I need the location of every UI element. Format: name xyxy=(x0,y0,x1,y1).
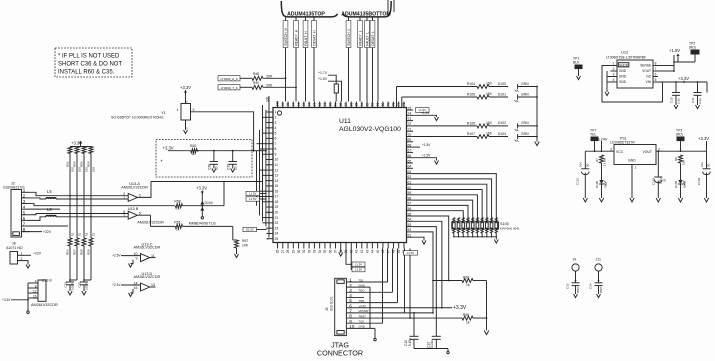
svg-text:78: 78 xyxy=(392,103,396,107)
svg-text:S100: S100 xyxy=(500,222,509,226)
svg-text:36: 36 xyxy=(328,249,332,253)
svg-text:VOUT: VOUT xyxy=(642,69,651,73)
svg-text:4: 4 xyxy=(613,78,615,82)
svg-text:A1071 ND: A1071 ND xyxy=(6,246,23,250)
svg-text:20: 20 xyxy=(275,211,279,215)
svg-text:58: 58 xyxy=(408,196,412,200)
svg-text:DESAT_H: DESAT_H xyxy=(313,30,317,46)
svg-text:+2.5V: +2.5V xyxy=(112,283,121,287)
svg-text:+3.3V: +3.3V xyxy=(180,85,191,90)
svg-text:51: 51 xyxy=(71,232,75,236)
svg-text:12: 12 xyxy=(275,168,279,172)
svg-text:6: 6 xyxy=(655,73,657,77)
svg-text:LT3999_H_9: LT3999_H_9 xyxy=(220,77,237,81)
svg-text:D1.5V: D1.5V xyxy=(246,228,254,232)
svg-text:51: 51 xyxy=(408,234,412,238)
svg-text:27: 27 xyxy=(281,249,285,253)
svg-text:96: 96 xyxy=(297,103,301,107)
svg-text:18: 18 xyxy=(275,200,279,204)
svg-text:87: 87 xyxy=(344,103,348,107)
svg-text:DESAT_L: DESAT_L xyxy=(371,31,375,46)
svg-text:34: 34 xyxy=(318,249,322,253)
svg-text:85: 85 xyxy=(355,103,359,107)
svg-text:150: 150 xyxy=(486,132,492,136)
svg-text:82: 82 xyxy=(371,103,375,107)
svg-text:37: 37 xyxy=(334,249,338,253)
svg-text:0.01u: 0.01u xyxy=(430,340,434,348)
svg-text:69: 69 xyxy=(408,138,412,142)
svg-text:9: 9 xyxy=(275,152,277,156)
svg-text:YEL: YEL xyxy=(604,182,608,188)
svg-text:3: 3 xyxy=(610,147,612,151)
svg-text:88: 88 xyxy=(339,103,343,107)
svg-text:J11: J11 xyxy=(596,258,602,262)
svg-text:CONNECTOR: CONNECTOR xyxy=(317,349,363,358)
svg-text:54: 54 xyxy=(408,218,412,222)
svg-text:84: 84 xyxy=(360,103,364,107)
svg-text:C31: C31 xyxy=(691,97,695,103)
svg-text:62: 62 xyxy=(408,175,412,179)
svg-text:2: 2 xyxy=(613,67,615,71)
svg-text:GND: GND xyxy=(359,283,365,287)
svg-text:+22V: +22V xyxy=(43,230,52,234)
svg-text:U11: U11 xyxy=(339,118,351,125)
svg-text:AM26LV32CDR: AM26LV32CDR xyxy=(121,186,148,190)
svg-text:86: 86 xyxy=(349,103,353,107)
svg-text:100P: 100P xyxy=(70,283,74,290)
svg-text:R106: R106 xyxy=(467,121,475,125)
svg-text:D102: D102 xyxy=(498,121,506,125)
svg-text:15: 15 xyxy=(134,286,138,290)
svg-text:U12: U12 xyxy=(621,50,629,55)
svg-text:60: 60 xyxy=(408,186,412,190)
svg-text:R53: R53 xyxy=(65,249,69,255)
svg-text:GND: GND xyxy=(628,159,636,163)
svg-text:93: 93 xyxy=(313,103,317,107)
svg-text:FAULT_L: FAULT_L xyxy=(366,32,370,46)
svg-text:LT3060ITS8-1.5#TRMPBF: LT3060ITS8-1.5#TRMPBF xyxy=(606,55,646,59)
svg-text:J9: J9 xyxy=(573,258,577,262)
svg-text:97: 97 xyxy=(292,103,296,107)
svg-text:INSTALL R60 & C35.: INSTALL R60 & C35. xyxy=(58,70,115,76)
svg-text:150: 150 xyxy=(486,92,492,96)
svg-text:C30: C30 xyxy=(670,97,674,103)
svg-text:+1.5V: +1.5V xyxy=(318,77,328,81)
svg-text:R52: R52 xyxy=(65,161,69,167)
svg-text:R48: R48 xyxy=(253,72,259,76)
svg-text:+1.5V: +1.5V xyxy=(422,143,431,147)
svg-text:R54: R54 xyxy=(72,161,76,167)
svg-text:L1.5V: L1.5V xyxy=(355,268,362,272)
svg-text:READY_L: READY_L xyxy=(359,30,363,46)
svg-text:KAV-0H0 0041: KAV-0H0 0041 xyxy=(500,226,520,230)
svg-text:21: 21 xyxy=(275,216,279,220)
svg-text:64: 64 xyxy=(408,165,412,169)
svg-text:FAULT_H: FAULT_H xyxy=(304,31,308,46)
svg-text:89: 89 xyxy=(334,103,338,107)
svg-text:50: 50 xyxy=(707,163,711,167)
svg-text:71: 71 xyxy=(408,128,412,132)
svg-text:L1.5V: L1.5V xyxy=(249,197,256,201)
svg-text:44: 44 xyxy=(371,249,375,253)
svg-text:68: 68 xyxy=(408,143,412,147)
svg-text:10u: 10u xyxy=(700,162,704,167)
svg-text:DNP: DNP xyxy=(599,287,603,293)
svg-text:U13 B: U13 B xyxy=(128,207,139,211)
svg-text:51: 51 xyxy=(92,232,96,236)
svg-text:70: 70 xyxy=(408,133,412,137)
svg-text:R107: R107 xyxy=(467,132,475,136)
svg-text:3: 3 xyxy=(613,73,615,77)
svg-text:VCC: VCC xyxy=(616,150,624,154)
svg-text:NC: NC xyxy=(646,75,651,79)
svg-text:SWITCH_H: SWITCH_H xyxy=(284,28,288,46)
svg-text:80: 80 xyxy=(381,103,385,107)
svg-text:32: 32 xyxy=(307,249,311,253)
svg-text:TDI: TDI xyxy=(359,278,364,282)
svg-text:+1.5V: +1.5V xyxy=(422,154,431,158)
svg-text:4: 4 xyxy=(35,279,37,283)
svg-text:73: 73 xyxy=(408,117,412,121)
svg-text:11: 11 xyxy=(275,163,279,167)
svg-text:100P: 100P xyxy=(84,283,88,290)
svg-text:50: 50 xyxy=(585,163,589,167)
svg-text:L6: L6 xyxy=(47,207,52,212)
svg-text:92: 92 xyxy=(318,103,322,107)
svg-text:R8: R8 xyxy=(674,157,678,161)
svg-text:LD1086DT33TR: LD1086DT33TR xyxy=(610,141,635,145)
svg-text:SWITCH_L: SWITCH_L xyxy=(347,29,351,46)
svg-text:75: 75 xyxy=(408,106,412,110)
svg-text:* IF PLL IS NOT USED: * IF PLL IS NOT USED xyxy=(58,54,120,60)
svg-text:C34: C34 xyxy=(589,283,593,289)
svg-text:1k: 1k xyxy=(466,283,470,287)
svg-text:+1.5V: +1.5V xyxy=(669,48,680,53)
svg-text:AM26LV32CDR: AM26LV32CDR xyxy=(134,275,161,279)
svg-text:2.2u: 2.2u xyxy=(698,98,702,104)
svg-text:1: 1 xyxy=(635,166,637,170)
svg-text:1: 1 xyxy=(613,62,615,66)
svg-text:R49: R49 xyxy=(253,81,259,85)
svg-text:1k: 1k xyxy=(176,228,180,232)
svg-text:L24V: L24V xyxy=(599,137,608,141)
svg-text:R7: R7 xyxy=(595,158,599,162)
svg-text:+3.3V: +3.3V xyxy=(453,305,467,311)
svg-text:R57: R57 xyxy=(72,249,76,255)
svg-text:25: 25 xyxy=(275,237,279,241)
svg-text:+1.5V: +1.5V xyxy=(421,111,430,115)
svg-text:MMBD4008 T1G: MMBD4008 T1G xyxy=(189,221,216,225)
svg-text:AGL030V2-VQG100: AGL030V2-VQG100 xyxy=(339,126,401,133)
svg-text:GRN: GRN xyxy=(521,121,529,125)
svg-text:D104: D104 xyxy=(205,201,213,205)
svg-text:51: 51 xyxy=(78,232,82,236)
svg-text:56: 56 xyxy=(408,207,412,211)
svg-text:14.0K: 14.0K xyxy=(603,158,607,166)
svg-text:100: 100 xyxy=(276,101,280,107)
svg-text:67: 67 xyxy=(408,149,412,153)
svg-text:3: 3 xyxy=(275,121,277,125)
svg-text:*: * xyxy=(161,160,163,166)
svg-text:1k: 1k xyxy=(466,320,470,324)
svg-text:22: 22 xyxy=(275,221,279,225)
svg-text:15: 15 xyxy=(275,184,279,188)
svg-text:+3.3V: +3.3V xyxy=(196,186,207,191)
svg-text:31: 31 xyxy=(302,249,306,253)
svg-text:GRN: GRN xyxy=(521,132,529,136)
svg-text:9: 9 xyxy=(136,256,138,260)
svg-text:24: 24 xyxy=(275,232,279,236)
svg-text:41: 41 xyxy=(355,249,359,253)
svg-text:25: 25 xyxy=(662,178,666,182)
svg-text:2.2u: 2.2u xyxy=(677,98,681,104)
svg-text:99: 99 xyxy=(281,103,285,107)
svg-text:8: 8 xyxy=(35,284,37,288)
svg-text:+3.3V: +3.3V xyxy=(359,304,367,308)
svg-text:90: 90 xyxy=(328,103,332,107)
svg-text:150: 150 xyxy=(486,121,492,125)
svg-text:L5: L5 xyxy=(47,189,52,194)
svg-text:L1.5V: L1.5V xyxy=(355,263,362,267)
svg-text:(RD): (RD) xyxy=(676,133,683,137)
svg-text:VIN: VIN xyxy=(646,80,652,84)
svg-text:61: 61 xyxy=(408,181,412,185)
svg-text:R58: R58 xyxy=(79,249,83,255)
svg-text:D100: D100 xyxy=(498,82,506,86)
svg-text:150: 150 xyxy=(486,82,492,86)
svg-text:7: 7 xyxy=(275,142,277,146)
svg-text:6: 6 xyxy=(275,137,277,141)
svg-text:7: 7 xyxy=(655,67,657,71)
svg-text:GND: GND xyxy=(619,69,627,73)
svg-text:10: 10 xyxy=(275,158,279,162)
svg-text:+22V: +22V xyxy=(33,251,42,255)
svg-text:AM26LV32CDR: AM26LV32CDR xyxy=(31,303,58,307)
svg-text:ORG: ORG xyxy=(683,181,687,189)
svg-text:8: 8 xyxy=(275,147,277,151)
svg-text:13: 13 xyxy=(275,174,279,178)
svg-text:23: 23 xyxy=(275,226,279,230)
svg-text:L1.5V: L1.5V xyxy=(249,192,256,196)
svg-text:+3.3V: +3.3V xyxy=(698,136,709,141)
svg-text:YEL: YEL xyxy=(590,133,597,137)
svg-text:10: 10 xyxy=(192,152,196,156)
svg-text:16: 16 xyxy=(33,294,37,298)
svg-text:C103: C103 xyxy=(697,177,701,185)
svg-text:TCK: TCK xyxy=(359,320,365,324)
svg-text:1: 1 xyxy=(177,108,179,112)
svg-text:+3.3V: +3.3V xyxy=(163,145,174,150)
svg-text:+3.3V: +3.3V xyxy=(678,76,689,81)
svg-text:91: 91 xyxy=(323,103,327,107)
svg-text:SG-636PCF 10.0000MC0 ROHS: SG-636PCF 10.0000MC0 ROHS xyxy=(111,116,164,120)
svg-text:R58: R58 xyxy=(174,199,180,203)
svg-text:+1.7V: +1.7V xyxy=(318,71,328,75)
svg-text:28: 28 xyxy=(286,249,290,253)
svg-text:79: 79 xyxy=(386,103,390,107)
svg-text:R60: R60 xyxy=(190,144,196,148)
svg-text:76: 76 xyxy=(402,103,406,107)
svg-text:U13 E: U13 E xyxy=(42,279,53,283)
svg-text:59: 59 xyxy=(408,191,412,195)
svg-text:2: 2 xyxy=(275,115,277,119)
svg-text:52: 52 xyxy=(408,228,412,232)
svg-text:TRST: TRST xyxy=(359,314,367,318)
svg-text:81: 81 xyxy=(376,103,380,107)
svg-text:D105: D105 xyxy=(595,180,599,188)
svg-text:77: 77 xyxy=(397,103,401,107)
svg-text:51: 51 xyxy=(85,232,89,236)
svg-text:D106: D106 xyxy=(674,180,678,188)
svg-text:D103: D103 xyxy=(498,132,506,136)
svg-text:GND: GND xyxy=(619,75,627,79)
svg-text:VOUT: VOUT xyxy=(643,150,652,154)
svg-text:66: 66 xyxy=(408,154,412,158)
svg-text:42: 42 xyxy=(360,249,364,253)
svg-text:55: 55 xyxy=(408,212,412,216)
svg-text:29: 29 xyxy=(292,249,296,253)
svg-text:95: 95 xyxy=(302,103,306,107)
svg-text:16: 16 xyxy=(275,189,279,193)
svg-text:GND: GND xyxy=(359,325,365,329)
svg-text:35: 35 xyxy=(323,249,327,253)
svg-text:10u: 10u xyxy=(579,162,583,167)
svg-text:5: 5 xyxy=(275,131,277,135)
svg-text:302-S101: 302-S101 xyxy=(329,296,333,311)
svg-text:10: 10 xyxy=(233,166,237,170)
svg-text:17: 17 xyxy=(275,195,279,199)
svg-text:74: 74 xyxy=(408,112,412,116)
svg-text:DNP: DNP xyxy=(576,287,580,293)
svg-text:10K: 10K xyxy=(242,244,249,248)
svg-text:53: 53 xyxy=(408,223,412,227)
svg-text:R67: R67 xyxy=(242,239,248,243)
svg-text:GRN: GRN xyxy=(521,82,529,86)
svg-text:10: 10 xyxy=(349,324,355,329)
svg-text:10: 10 xyxy=(215,166,219,170)
svg-text:SHORT C36 & DO NOT: SHORT C36 & DO NOT xyxy=(58,62,122,68)
svg-text:150: 150 xyxy=(682,160,686,165)
svg-text:12: 12 xyxy=(33,289,37,293)
svg-text:1: 1 xyxy=(123,196,125,200)
svg-text:57: 57 xyxy=(408,202,412,206)
svg-text:C101: C101 xyxy=(576,177,580,185)
svg-text:94: 94 xyxy=(307,103,311,107)
svg-text:AM26LV32CDR: AM26LV32CDR xyxy=(134,246,161,250)
svg-text:R104: R104 xyxy=(467,82,475,86)
svg-text:(RD): (RD) xyxy=(689,46,696,50)
svg-text:R56: R56 xyxy=(86,161,90,167)
svg-text:8: 8 xyxy=(655,62,657,66)
svg-text:GND: GND xyxy=(619,80,627,84)
svg-text:VPUMP: VPUMP xyxy=(359,309,369,313)
svg-text:ADUM4135TOP: ADUM4135TOP xyxy=(287,12,325,18)
svg-text:14: 14 xyxy=(275,179,279,183)
svg-text:R105: R105 xyxy=(467,93,475,97)
svg-text:SENSE: SENSE xyxy=(640,64,651,68)
svg-text:510: 510 xyxy=(92,167,96,172)
svg-text:C32: C32 xyxy=(566,283,570,289)
svg-text:46: 46 xyxy=(381,249,385,253)
svg-text:BLK: BLK xyxy=(573,61,580,65)
svg-text:ADUM4135BOTTOM: ADUM4135BOTTOM xyxy=(341,12,390,18)
svg-text:1: 1 xyxy=(275,110,277,114)
svg-text:L1.5V: L1.5V xyxy=(407,251,414,255)
svg-text:63: 63 xyxy=(408,170,412,174)
svg-text:30: 30 xyxy=(297,249,301,253)
svg-text:19: 19 xyxy=(275,205,279,209)
svg-text:TMS: TMS xyxy=(359,299,365,303)
svg-text:+2.5V: +2.5V xyxy=(112,254,121,258)
svg-text:+3.3V: +3.3V xyxy=(2,298,11,302)
svg-text:G3200B21721: G3200B21721 xyxy=(3,185,25,189)
svg-text:26: 26 xyxy=(276,249,280,253)
svg-text:LT3999_T_9: LT3999_T_9 xyxy=(221,86,238,90)
svg-text:C36: C36 xyxy=(208,164,212,170)
svg-text:65: 65 xyxy=(408,159,412,163)
svg-text:1k: 1k xyxy=(176,207,180,211)
svg-text:4: 4 xyxy=(275,126,277,130)
svg-text:C20: C20 xyxy=(77,282,81,288)
svg-text:98: 98 xyxy=(286,103,290,107)
svg-text:7: 7 xyxy=(123,214,125,218)
svg-text:83: 83 xyxy=(365,103,369,107)
svg-text:R59: R59 xyxy=(86,249,90,255)
svg-text:TDO: TDO xyxy=(359,289,366,293)
svg-text:READY_H: READY_H xyxy=(295,29,299,46)
svg-text:3: 3 xyxy=(193,108,195,112)
svg-text:R55: R55 xyxy=(79,161,83,167)
svg-text:5: 5 xyxy=(655,78,657,82)
svg-text:33: 33 xyxy=(313,249,317,253)
svg-text:Y1: Y1 xyxy=(161,110,167,115)
svg-text:0.15u: 0.15u xyxy=(408,338,412,346)
svg-text:C35: C35 xyxy=(226,164,230,170)
svg-text:43: 43 xyxy=(365,249,369,253)
svg-text:45: 45 xyxy=(376,249,380,253)
svg-text:GRN: GRN xyxy=(521,92,529,96)
svg-text:D101: D101 xyxy=(498,92,506,96)
svg-text:72: 72 xyxy=(408,122,412,126)
svg-text:47: 47 xyxy=(386,249,390,253)
svg-text:C19: C19 xyxy=(63,282,67,288)
